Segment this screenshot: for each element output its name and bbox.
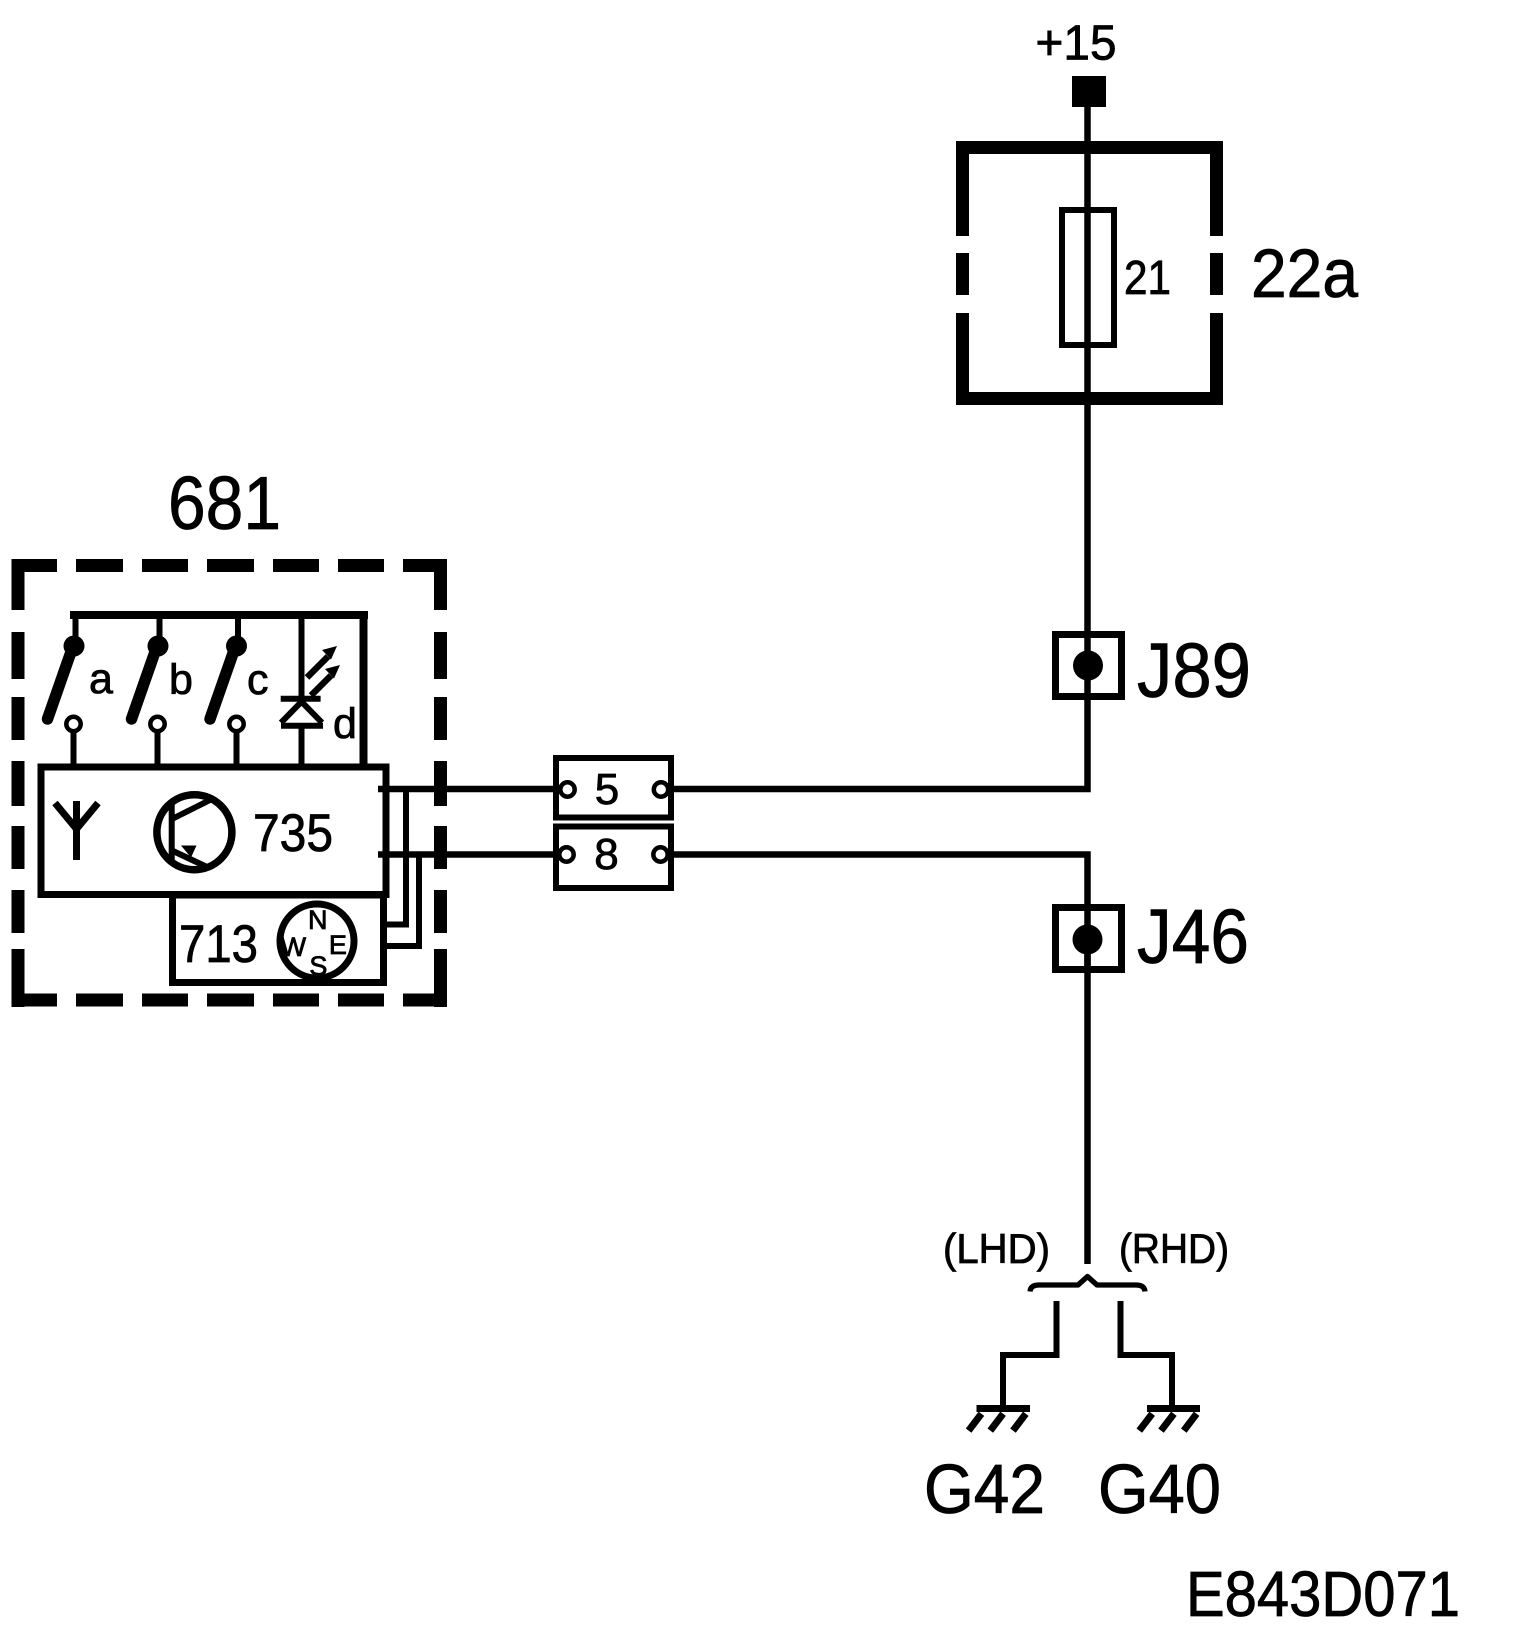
compass rose symbol: [280, 904, 354, 981]
ground G40 symbol: [1139, 1409, 1200, 1431]
svg-text:5: 5: [595, 765, 619, 814]
radio unit 735 box: [41, 767, 386, 895]
wire: 713 branch to pin 8 wire: [383, 855, 419, 947]
wire: J89 down to pin 5 level, turning left to connector pin 5: [671, 700, 1088, 789]
wire: J46 down to LHD/RHD split: [1084, 940, 1091, 1264]
svg-text:8: 8: [594, 830, 618, 879]
svg-text:+15: +15: [1036, 17, 1117, 71]
svg-text:c: c: [247, 656, 269, 704]
svg-text:J46: J46: [1137, 894, 1249, 980]
connector cell pin 5: [556, 758, 671, 818]
svg-text:d: d: [333, 700, 357, 748]
svg-text:E843D071: E843D071: [1186, 1558, 1460, 1630]
LED d (illumination diode with arrows): [281, 615, 340, 767]
svg-text:J89: J89: [1137, 628, 1251, 714]
svg-text:W: W: [281, 932, 307, 962]
switch a: [48, 615, 85, 767]
svg-text:681: 681: [168, 461, 281, 545]
connector J46: [1056, 908, 1122, 970]
switch b: [132, 615, 169, 767]
connector J89: [1056, 635, 1122, 697]
wire: 713 branch to pin 5 wire: [383, 789, 406, 925]
brace (alternative split LHD/RHD): [1030, 1277, 1145, 1292]
terminal +15 (filled square): [1072, 76, 1106, 107]
dashed enclosure 681: [12, 559, 448, 1007]
fuse holder box 22a (thick border with side gaps): [956, 141, 1223, 405]
fuse 21 element: [1062, 210, 1114, 345]
compass unit 713 box: [173, 895, 384, 983]
svg-text:G40: G40: [1098, 1450, 1221, 1528]
wire: brace to ground G40 (RHD): [1121, 1301, 1173, 1406]
wire: 735 pin to connector pin 5 (left segment): [378, 786, 556, 793]
svg-text:G42: G42: [924, 1450, 1045, 1528]
svg-text:(RHD): (RHD): [1119, 1225, 1229, 1272]
svg-text:N: N: [308, 905, 328, 935]
antenna symbol: [55, 801, 98, 860]
svg-text:22a: 22a: [1251, 235, 1359, 312]
transistor symbol U (circle): [157, 795, 232, 870]
switch c: [210, 615, 247, 767]
svg-text:713: 713: [179, 915, 258, 974]
switch bank bus bar (top line and right edge): [70, 615, 368, 767]
svg-text:E: E: [329, 930, 347, 960]
wire: +15 terminal down through fuse box and fuse 21 to J89: [1084, 107, 1091, 700]
wire: connector pin 8 right side to J46: [671, 855, 1088, 974]
svg-text:735: 735: [253, 804, 333, 863]
svg-text:(LHD): (LHD): [943, 1225, 1050, 1272]
connector cell pin 8: [556, 827, 671, 889]
wire: brace to ground G42 (LHD): [1003, 1301, 1057, 1406]
svg-text:21: 21: [1124, 252, 1171, 305]
svg-text:b: b: [169, 656, 193, 704]
svg-text:a: a: [89, 655, 113, 703]
wire: 735 pin to connector pin 8 (left segment): [378, 851, 556, 858]
ground G42 symbol: [969, 1409, 1030, 1431]
svg-text:S: S: [309, 951, 327, 981]
